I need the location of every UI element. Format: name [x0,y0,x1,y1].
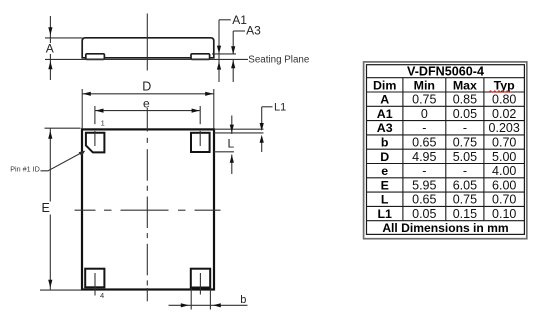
svg-text:D: D [380,150,389,164]
svg-text:L1: L1 [377,207,392,221]
svg-text:Typ: Typ [494,78,516,92]
svg-text:5.00: 5.00 [492,150,516,164]
plan view package body outline [82,129,214,289]
dimension A line [49,16,51,43]
svg-text:e: e [143,96,150,110]
svg-text:Min: Min [414,78,435,92]
svg-text:0.65: 0.65 [412,136,436,150]
svg-text:0.85: 0.85 [453,93,477,107]
svg-text:-: - [422,164,426,178]
svg-text:Seating Plane: Seating Plane [248,55,310,66]
svg-text:D: D [142,80,151,94]
side view package body outline [82,38,214,58]
dimension D line [82,93,214,95]
svg-text:V-DFN5060-4: V-DFN5060-4 [407,65,484,79]
svg-text:6.00: 6.00 [492,178,516,192]
svg-text:1: 1 [101,119,105,128]
pad 1 (top-left, chamfered pin 1 ID) [86,133,105,153]
table outer border [364,62,527,239]
svg-text:A1: A1 [377,107,393,121]
svg-text:0.15: 0.15 [453,207,477,221]
dimension b extension lines [190,289,192,310]
svg-text:0.10: 0.10 [492,207,516,221]
dimension L1 line [261,107,263,126]
svg-text:e: e [381,164,388,178]
svg-text:E: E [381,178,389,192]
svg-text:0.65: 0.65 [412,193,436,207]
pad bottom extension line (L) [214,151,234,153]
svg-text:0.02: 0.02 [492,107,516,121]
pad centerline (bottom-left pad) [94,273,96,296]
svg-text:0: 0 [421,107,428,121]
seating plane line [45,58,248,60]
svg-text:0.05: 0.05 [453,107,477,121]
svg-text:L: L [381,193,389,207]
svg-text:A1: A1 [232,13,247,27]
svg-text:0.70: 0.70 [492,136,516,150]
svg-text:All Dimensions in mm: All Dimensions in mm [382,221,508,235]
pad centerline (bottom-right pad) [199,273,201,295]
dimension A1 line [218,20,220,82]
plan view horizontal centerline [75,209,221,211]
dimension L line (upper) [231,116,233,135]
svg-text:0.80: 0.80 [492,93,516,107]
table row lines [367,78,525,221]
dimension L1 leader [262,106,273,108]
svg-text:0.203: 0.203 [489,121,520,135]
pad 2 (top-right) [191,133,210,152]
svg-text:0.75: 0.75 [453,193,477,207]
svg-text:4.95: 4.95 [412,150,436,164]
svg-text:L: L [228,136,235,150]
dimension E extension lines [45,127,81,129]
dimension L line (lower) [231,155,233,175]
svg-text:Dim: Dim [373,78,396,92]
svg-text:0.70: 0.70 [492,193,516,207]
side view right terminal pad [191,54,210,60]
pad 4 (bottom-left) [85,269,104,288]
table column lines [403,78,484,221]
svg-text:0.75: 0.75 [453,136,477,150]
dimension A1 leader [219,19,231,21]
svg-text:A: A [46,42,54,56]
dimension e extension lines (pad centerlines, top) [94,106,96,124]
svg-text:Max: Max [453,78,477,92]
svg-text:b: b [381,136,389,150]
pad pull-back reference line (L1 lower) [214,132,264,134]
svg-text:b: b [240,294,246,306]
table data rows [377,93,520,221]
dimension b line [169,304,248,306]
svg-text:6.05: 6.05 [453,178,477,192]
svg-text:4: 4 [100,291,104,300]
dimension D extension lines [81,89,83,129]
svg-text:0.05: 0.05 [412,207,436,221]
dimension A3 leader [233,30,245,32]
table inner border [367,65,525,235]
dimension A extension line (body top) [45,37,83,39]
table column headers [373,78,515,92]
typ spell-check squiggle [490,91,511,93]
svg-text:4.00: 4.00 [492,164,516,178]
pad 3 (bottom-right) [191,269,210,288]
svg-text:A: A [380,93,389,107]
body edge reference line (L1 upper) [214,128,264,130]
side view left terminal pad [86,54,105,60]
svg-text:L1: L1 [274,101,286,113]
svg-text:5.95: 5.95 [412,178,436,192]
pin 1 ID leader [41,152,84,171]
svg-text:Pin #1 ID: Pin #1 ID [10,165,40,174]
plan view vertical centerline [146,108,148,301]
dimension e line [95,110,200,112]
svg-text:0.75: 0.75 [412,93,436,107]
side view vertical centerline [146,14,148,71]
svg-text:A3: A3 [246,23,261,37]
dimension A3 line [232,31,234,55]
svg-text:A3: A3 [377,121,393,135]
svg-text:E: E [42,201,50,215]
svg-text:5.05: 5.05 [453,150,477,164]
svg-text:-: - [422,121,426,135]
side view pad top reference line [212,53,236,55]
svg-text:-: - [463,164,467,178]
svg-text:-: - [463,121,467,135]
dimension E line [49,128,51,201]
